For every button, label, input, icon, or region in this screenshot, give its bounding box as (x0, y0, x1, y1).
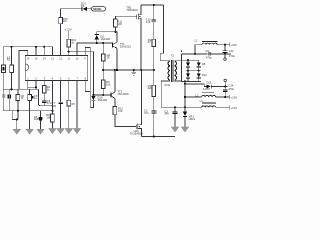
diode ZD1 (82, 7, 92, 11)
diode D2A (90, 94, 107, 108)
capacitor C6 (42, 93, 52, 106)
svg-text:L1: L1 (195, 38, 198, 42)
wire node line below IC left (3, 81, 38, 91)
svg-text:1N4148: 1N4148 (100, 37, 110, 41)
wire mid rail y70 (102, 69, 155, 71)
inductor L2 (185, 87, 229, 98)
wire ground node line (3, 89, 53, 111)
resistor R13 (148, 70, 156, 97)
pin numbers bottom row (27, 76, 86, 80)
label ZD1 (81, 2, 87, 8)
wire bottom rail (141, 135, 175, 137)
svg-text:470u: 470u (228, 87, 234, 91)
resistor R11 (114, 16, 137, 32)
svg-text:150: 150 (118, 109, 123, 113)
resistor R3 (42, 81, 50, 93)
diode D9 (186, 71, 190, 82)
svg-text:103: 103 (51, 104, 56, 108)
inductor L1 (195, 38, 229, 54)
svg-text:R1: R1 (7, 58, 11, 62)
transistor TT1 (112, 42, 131, 70)
svg-text:D11: D11 (207, 80, 212, 84)
ground G6 (65, 128, 73, 133)
svg-text:64 E: 64 E (165, 83, 171, 87)
svg-text:100: 100 (117, 22, 122, 26)
ground G8 (171, 127, 179, 132)
resistor R2 (16, 89, 24, 119)
svg-text:103: 103 (34, 117, 39, 121)
resistor R6 (46, 111, 54, 129)
svg-text:TK5A60U: TK5A60U (126, 8, 138, 12)
label X1 (7, 55, 11, 61)
wire to ground 1 (12, 111, 18, 129)
resistor R10 (67, 38, 77, 47)
svg-text:A 160: A 160 (203, 87, 210, 91)
wire secondary return column (184, 81, 186, 108)
diode D7 (186, 60, 190, 70)
ground G5 (57, 128, 65, 133)
pin numbers top row (26, 57, 86, 61)
capacitor C10 (146, 5, 156, 39)
capacitor C2 (144, 97, 156, 137)
wire TT2 base (93, 94, 110, 96)
MOSFET TR1 (126, 5, 141, 70)
ground chassis (131, 70, 136, 75)
IC U1 body (25, 56, 87, 81)
capacitor C3 (Y-cap) (164, 107, 177, 127)
wire bus2 to pin16 and left rail (19, 50, 28, 89)
wire secondary rail (181, 54, 183, 82)
resistor R8 (101, 43, 110, 70)
svg-text:1u: 1u (34, 96, 37, 100)
node D5 and R8 junctions on TT1 base wire (96, 42, 105, 44)
wire output row 2 (185, 84, 207, 87)
resistor R5 (67, 81, 75, 129)
MOSFET TR2 (130, 70, 143, 136)
svg-text:2SC1815: 2SC1815 (117, 92, 129, 96)
ground G1 (13, 129, 21, 134)
svg-text:R5: R5 (71, 102, 75, 106)
node terminal circle 2 (224, 79, 227, 86)
capacitor C4 (2, 89, 11, 110)
node +12V (65, 28, 72, 40)
svg-text:1N4148: 1N4148 (97, 98, 107, 102)
svg-text:D10: D10 (202, 73, 207, 77)
wire secondary top bus (182, 53, 232, 55)
svg-text:TK15A60U: TK15A60U (130, 132, 143, 136)
svg-text:D8: D8 (202, 62, 206, 66)
wire pin9 nested (85, 48, 90, 56)
wire diode bottom bus (182, 80, 201, 82)
node output2 text (228, 83, 234, 91)
svg-text:C5: C5 (2, 95, 6, 99)
node MOSE label box (91, 7, 105, 11)
svg-text:47n: 47n (144, 111, 149, 115)
node +15V terminal (229, 95, 237, 99)
wire bus pins 9-11 (68, 51, 94, 95)
resistor R14 (148, 38, 156, 70)
svg-text:2kV: 2kV (164, 112, 169, 116)
resistor R7 (59, 17, 68, 24)
wire R10 to bus (68, 47, 70, 56)
transistor TT2 (111, 70, 130, 107)
svg-text:C9: C9 (205, 49, 209, 53)
svg-text:470u: 470u (229, 54, 235, 58)
wire bus1 above IC (3, 46, 52, 56)
ground G3 (37, 129, 45, 134)
svg-text:+30V: +30V (231, 43, 238, 47)
capacitor C7 (51, 81, 62, 129)
wire primary bottom (161, 81, 170, 107)
svg-text:C11: C11 (229, 49, 234, 53)
wire output row 4 (161, 106, 202, 108)
diode D5 (95, 32, 111, 43)
node +12V terminal (229, 106, 237, 110)
node mark (181, 50, 183, 52)
diode VR1 (183, 107, 196, 127)
wire right of IC (89, 48, 91, 108)
svg-text:+15V: +15V (231, 96, 238, 100)
label diodes (202, 62, 207, 77)
svg-text:+12V: +12V (231, 106, 238, 110)
diode D10 (197, 71, 201, 82)
wire diode mid bus (185, 70, 200, 72)
svg-text:R6: R6 (81, 4, 85, 8)
wire top-left from R7 up and right (61, 9, 82, 18)
svg-text:HZ12: HZ12 (189, 117, 196, 121)
wire collector node (97, 31, 117, 42)
svg-text:L3: L3 (200, 99, 203, 103)
ground G9 (181, 127, 189, 132)
svg-text:1n5: 1n5 (146, 20, 151, 24)
svg-text:+12V: +12V (65, 28, 72, 32)
resistor R1 (10, 47, 14, 90)
diode D11 (207, 80, 228, 88)
wire secondary top (174, 54, 181, 61)
wire diode branch top (182, 59, 199, 61)
capacitor C8 (34, 111, 43, 129)
svg-text:470p: 470p (206, 55, 212, 59)
svg-text:2SA1015: 2SA1015 (120, 44, 132, 48)
svg-text:47: 47 (148, 40, 151, 44)
svg-text:22k: 22k (148, 86, 153, 90)
wire pin8 to side rail (85, 81, 90, 92)
svg-text:L2: L2 (195, 94, 198, 98)
transformer T1 (165, 54, 177, 87)
svg-text:1k5: 1k5 (106, 83, 111, 87)
node terminal circle 1 (224, 54, 227, 60)
ground G4 (48, 128, 56, 133)
capacitor C5 (28, 89, 38, 129)
ground G2 (26, 129, 34, 134)
wire pin7 down (76, 81, 78, 129)
inductor L3 (200, 99, 229, 107)
svg-text:MOSE: MOSE (93, 7, 101, 11)
node +30V terminal (229, 43, 237, 47)
wire R7 to pin12 (60, 24, 62, 56)
ground G7 (73, 128, 81, 133)
wire primary top feed (160, 5, 170, 61)
svg-text:C14: C14 (228, 83, 233, 87)
capacitor C9 (205, 49, 212, 59)
svg-text:T1: T1 (171, 54, 175, 58)
capacitor C13 (223, 86, 227, 97)
capacitor C11 (223, 45, 236, 58)
wire pin4 down (51, 81, 53, 111)
svg-text:10k: 10k (46, 116, 51, 120)
capacitor C1 (1, 47, 5, 90)
wire pin10 to TT1 base (77, 43, 112, 56)
diode D8 (197, 60, 201, 70)
wire pin2 bend down right (38, 89, 52, 105)
resistor R12 (113, 107, 136, 127)
resistor R9 (101, 70, 110, 96)
wire top rail (141, 4, 164, 6)
